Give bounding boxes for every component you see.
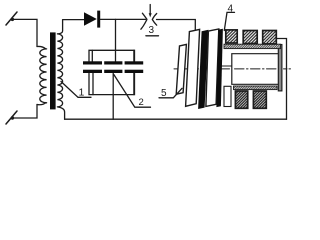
label 1 leader bbox=[61, 82, 91, 98]
spark gap adjust arrow bbox=[149, 5, 152, 18]
label 2 leader bbox=[114, 75, 151, 108]
wire top-left input bbox=[13, 19, 37, 46]
wire secondary top to diode bbox=[63, 19, 85, 21]
transformer core bbox=[50, 32, 56, 109]
svg-text:5: 5 bbox=[161, 88, 167, 99]
wire chamber to right rail bbox=[277, 39, 287, 120]
label 5 leader bbox=[159, 88, 182, 98]
svg-text:2: 2 bbox=[139, 97, 144, 108]
electrode block top 1 bbox=[226, 30, 237, 43]
capacitor C3 stubs bbox=[133, 50, 135, 61]
electrode block top 2 bbox=[243, 31, 257, 44]
wire spark gap to discharger bbox=[157, 20, 196, 31]
capacitor C1 plates bbox=[83, 61, 102, 73]
capacitor C2 stub bbox=[112, 73, 114, 119]
insulator strip bottom bbox=[234, 86, 278, 90]
svg-text:1: 1 bbox=[79, 87, 85, 99]
spacer block bottom left bbox=[224, 86, 231, 106]
wire bottom rail bbox=[65, 118, 287, 120]
spark gap electrodes bbox=[141, 13, 157, 29]
disc B outline bbox=[186, 29, 200, 106]
diode VD bbox=[84, 11, 100, 28]
terminal bottom-left bbox=[6, 111, 17, 124]
label 4 leader bbox=[224, 12, 234, 30]
disc D outline bbox=[206, 29, 219, 106]
tube right end cap bbox=[278, 45, 282, 91]
axis centerline bbox=[174, 68, 231, 70]
disc C black bbox=[198, 30, 208, 109]
label 3 underline bbox=[146, 35, 159, 37]
shaft line bbox=[216, 65, 234, 67]
capacitor C3 plates bbox=[125, 61, 144, 73]
insulator strip top bbox=[224, 44, 281, 48]
transformer secondary winding bbox=[57, 20, 64, 119]
wire bottom-left input bbox=[13, 105, 37, 119]
chamber tube body bbox=[232, 54, 280, 85]
node T junction to capacitor bank bbox=[115, 19, 117, 61]
electrode block bottom 1 bbox=[235, 91, 247, 108]
transformer primary winding bbox=[37, 46, 47, 104]
capacitor bank box bbox=[89, 50, 135, 94]
capacitor C1 stubs bbox=[91, 50, 93, 61]
disc E black bbox=[216, 29, 223, 107]
electrode block bottom 2 bbox=[253, 91, 266, 108]
tube bore centerline redraw bbox=[235, 68, 279, 70]
wire diode to spark gap bbox=[100, 18, 145, 20]
electrode block top 3 bbox=[263, 31, 277, 44]
terminal top-left bbox=[6, 12, 17, 25]
capacitor C2 plates bbox=[104, 61, 122, 73]
disc A outline bbox=[176, 44, 186, 94]
svg-text:3: 3 bbox=[149, 25, 155, 36]
